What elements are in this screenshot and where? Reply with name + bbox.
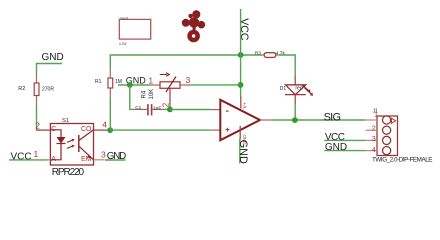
svg-text:R2: R2 [18,86,25,92]
junction C1 right / opamp minus [167,107,173,113]
label VCC (opto pin1) [9,149,50,163]
junction VCC / top wire [238,52,244,58]
label GND (R2 top) [37,52,64,73]
svg-text:1: 1 [34,149,39,159]
fan icon [182,10,205,40]
optocoupler S1 RPR220 [50,118,93,178]
svg-text:D1: D1 [280,86,287,92]
svg-text:3: 3 [372,134,376,143]
label SIG [324,112,341,124]
svg-text:3: 3 [186,75,191,85]
svg-text:VCC: VCC [11,152,32,163]
trimmer R4 10K [142,73,191,110]
svg-text:C1: C1 [135,105,141,111]
svg-text:R1: R1 [95,79,102,85]
top wire [110,55,262,68]
svg-text:2: 2 [372,123,376,132]
label VCC (connector) [324,132,365,143]
svg-text:4: 4 [102,119,107,129]
svg-text:10K: 10K [149,89,155,100]
junction GND label [127,82,133,88]
junction output / D1 [292,117,298,123]
opto pin 4 stub [94,119,110,130]
wire down to C1 [130,85,134,109]
wire opamp output to connector [272,119,366,121]
svg-text:GND: GND [237,140,249,164]
svg-text:VCC: VCC [238,18,250,41]
svg-text:3: 3 [101,150,106,160]
svg-text:RPR220: RPR220 [52,167,85,178]
wire R2 to opto pin2 [36,106,38,130]
wire junction up to R1 [109,98,111,130]
label GND (pot pin1) [118,76,151,86]
svg-text:2: 2 [162,102,171,107]
wire pot pin3 to VCC line [190,84,240,86]
svg-text:SIG: SIG [324,112,341,124]
opto pin 3 stub + label GND [94,150,127,162]
op-amp U1 [220,96,272,145]
svg-text:1nF: 1nF [153,105,161,111]
svg-text:R4: R4 [142,90,148,98]
capacitor C1 1nF [134,104,170,115]
svg-text:V+: V+ [243,102,249,108]
svg-text:1M: 1M [115,79,122,85]
label GND vertical (opamp) [237,139,249,164]
wire R3 to D1 [278,55,295,85]
svg-text:S1: S1 [62,118,69,124]
fan motor box FAN01 [119,16,151,46]
resistor R3 4.7k [255,50,286,57]
svg-text:red: red [295,86,302,92]
svg-text:0.2W: 0.2W [119,42,126,46]
opto pin 2 stub [35,121,50,131]
svg-text:2: 2 [35,121,40,131]
svg-text:Fan01: Fan01 [120,16,128,20]
resistor R2 270R [18,73,54,106]
svg-text:TWIG_2.0-DIP-FEMALE: TWIG_2.0-DIP-FEMALE [372,157,432,164]
svg-text:1: 1 [148,76,153,86]
junction VCC / pot wire [238,82,244,88]
wire to opamp minus input [170,109,220,111]
svg-text:GND: GND [42,52,64,63]
connector J1 TWIG_2.0-DIP-FEMALE [366,109,433,164]
junction pin4 [107,127,113,133]
svg-text:R3: R3 [255,50,261,56]
svg-text:4: 4 [372,145,376,154]
label VCC vertical top [238,9,250,96]
label GND (connector) [324,142,365,153]
LED D1 red [280,85,313,121]
svg-text:270R: 270R [42,86,54,92]
wire junction to opamp + input [110,129,220,131]
resistor R1 1M [95,68,122,98]
svg-text:J1: J1 [373,109,379,115]
